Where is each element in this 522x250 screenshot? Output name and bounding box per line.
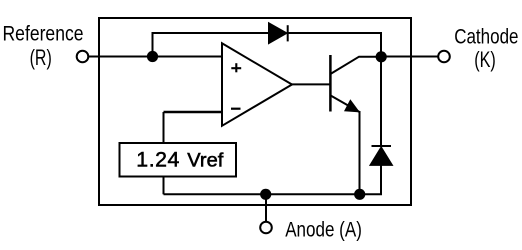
terminal A xyxy=(260,222,272,234)
svg-text:(K): (K) xyxy=(474,47,496,72)
node emitter rail junction xyxy=(354,189,365,200)
IC outline box xyxy=(99,18,411,205)
diode D1 (top, anode left) xyxy=(269,23,288,44)
transistor Q1 emitter xyxy=(330,95,359,112)
op-amp U1 xyxy=(222,43,292,126)
wire anode rail xyxy=(164,193,383,195)
terminal R xyxy=(77,51,89,63)
diode D2 (vertical, cathode up) xyxy=(372,145,392,147)
wire reference input xyxy=(89,56,223,58)
wire cathode node to diode D2 xyxy=(380,57,382,147)
wire base xyxy=(291,83,330,85)
terminal K xyxy=(438,51,450,63)
wire Vref to inverting input xyxy=(163,112,165,143)
wire inverting input xyxy=(164,111,222,114)
svg-text:Anode (A): Anode (A) xyxy=(285,219,362,242)
svg-text:Reference: Reference xyxy=(3,22,84,46)
transistor Q1 base bar xyxy=(329,55,332,112)
svg-text:1.24: 1.24 xyxy=(136,148,179,172)
Vref source box xyxy=(120,143,237,177)
wire emitter to rail xyxy=(359,111,361,194)
wire top diode to cathode node xyxy=(288,33,381,57)
wire riser to top diode branch xyxy=(153,33,270,57)
wire anode terminal riser xyxy=(265,194,267,222)
wire Vref to anode rail xyxy=(163,177,165,195)
node reference junction xyxy=(147,51,158,62)
svg-text:(R): (R) xyxy=(30,45,52,70)
node cathode junction xyxy=(376,51,387,62)
svg-text:Cathode: Cathode xyxy=(454,25,518,48)
wire diode D2 to rail xyxy=(380,165,382,194)
transistor Q1 collector xyxy=(330,57,381,74)
svg-text:Vref: Vref xyxy=(187,150,224,171)
wire cathode output xyxy=(381,56,438,58)
node anode junction xyxy=(260,189,271,200)
